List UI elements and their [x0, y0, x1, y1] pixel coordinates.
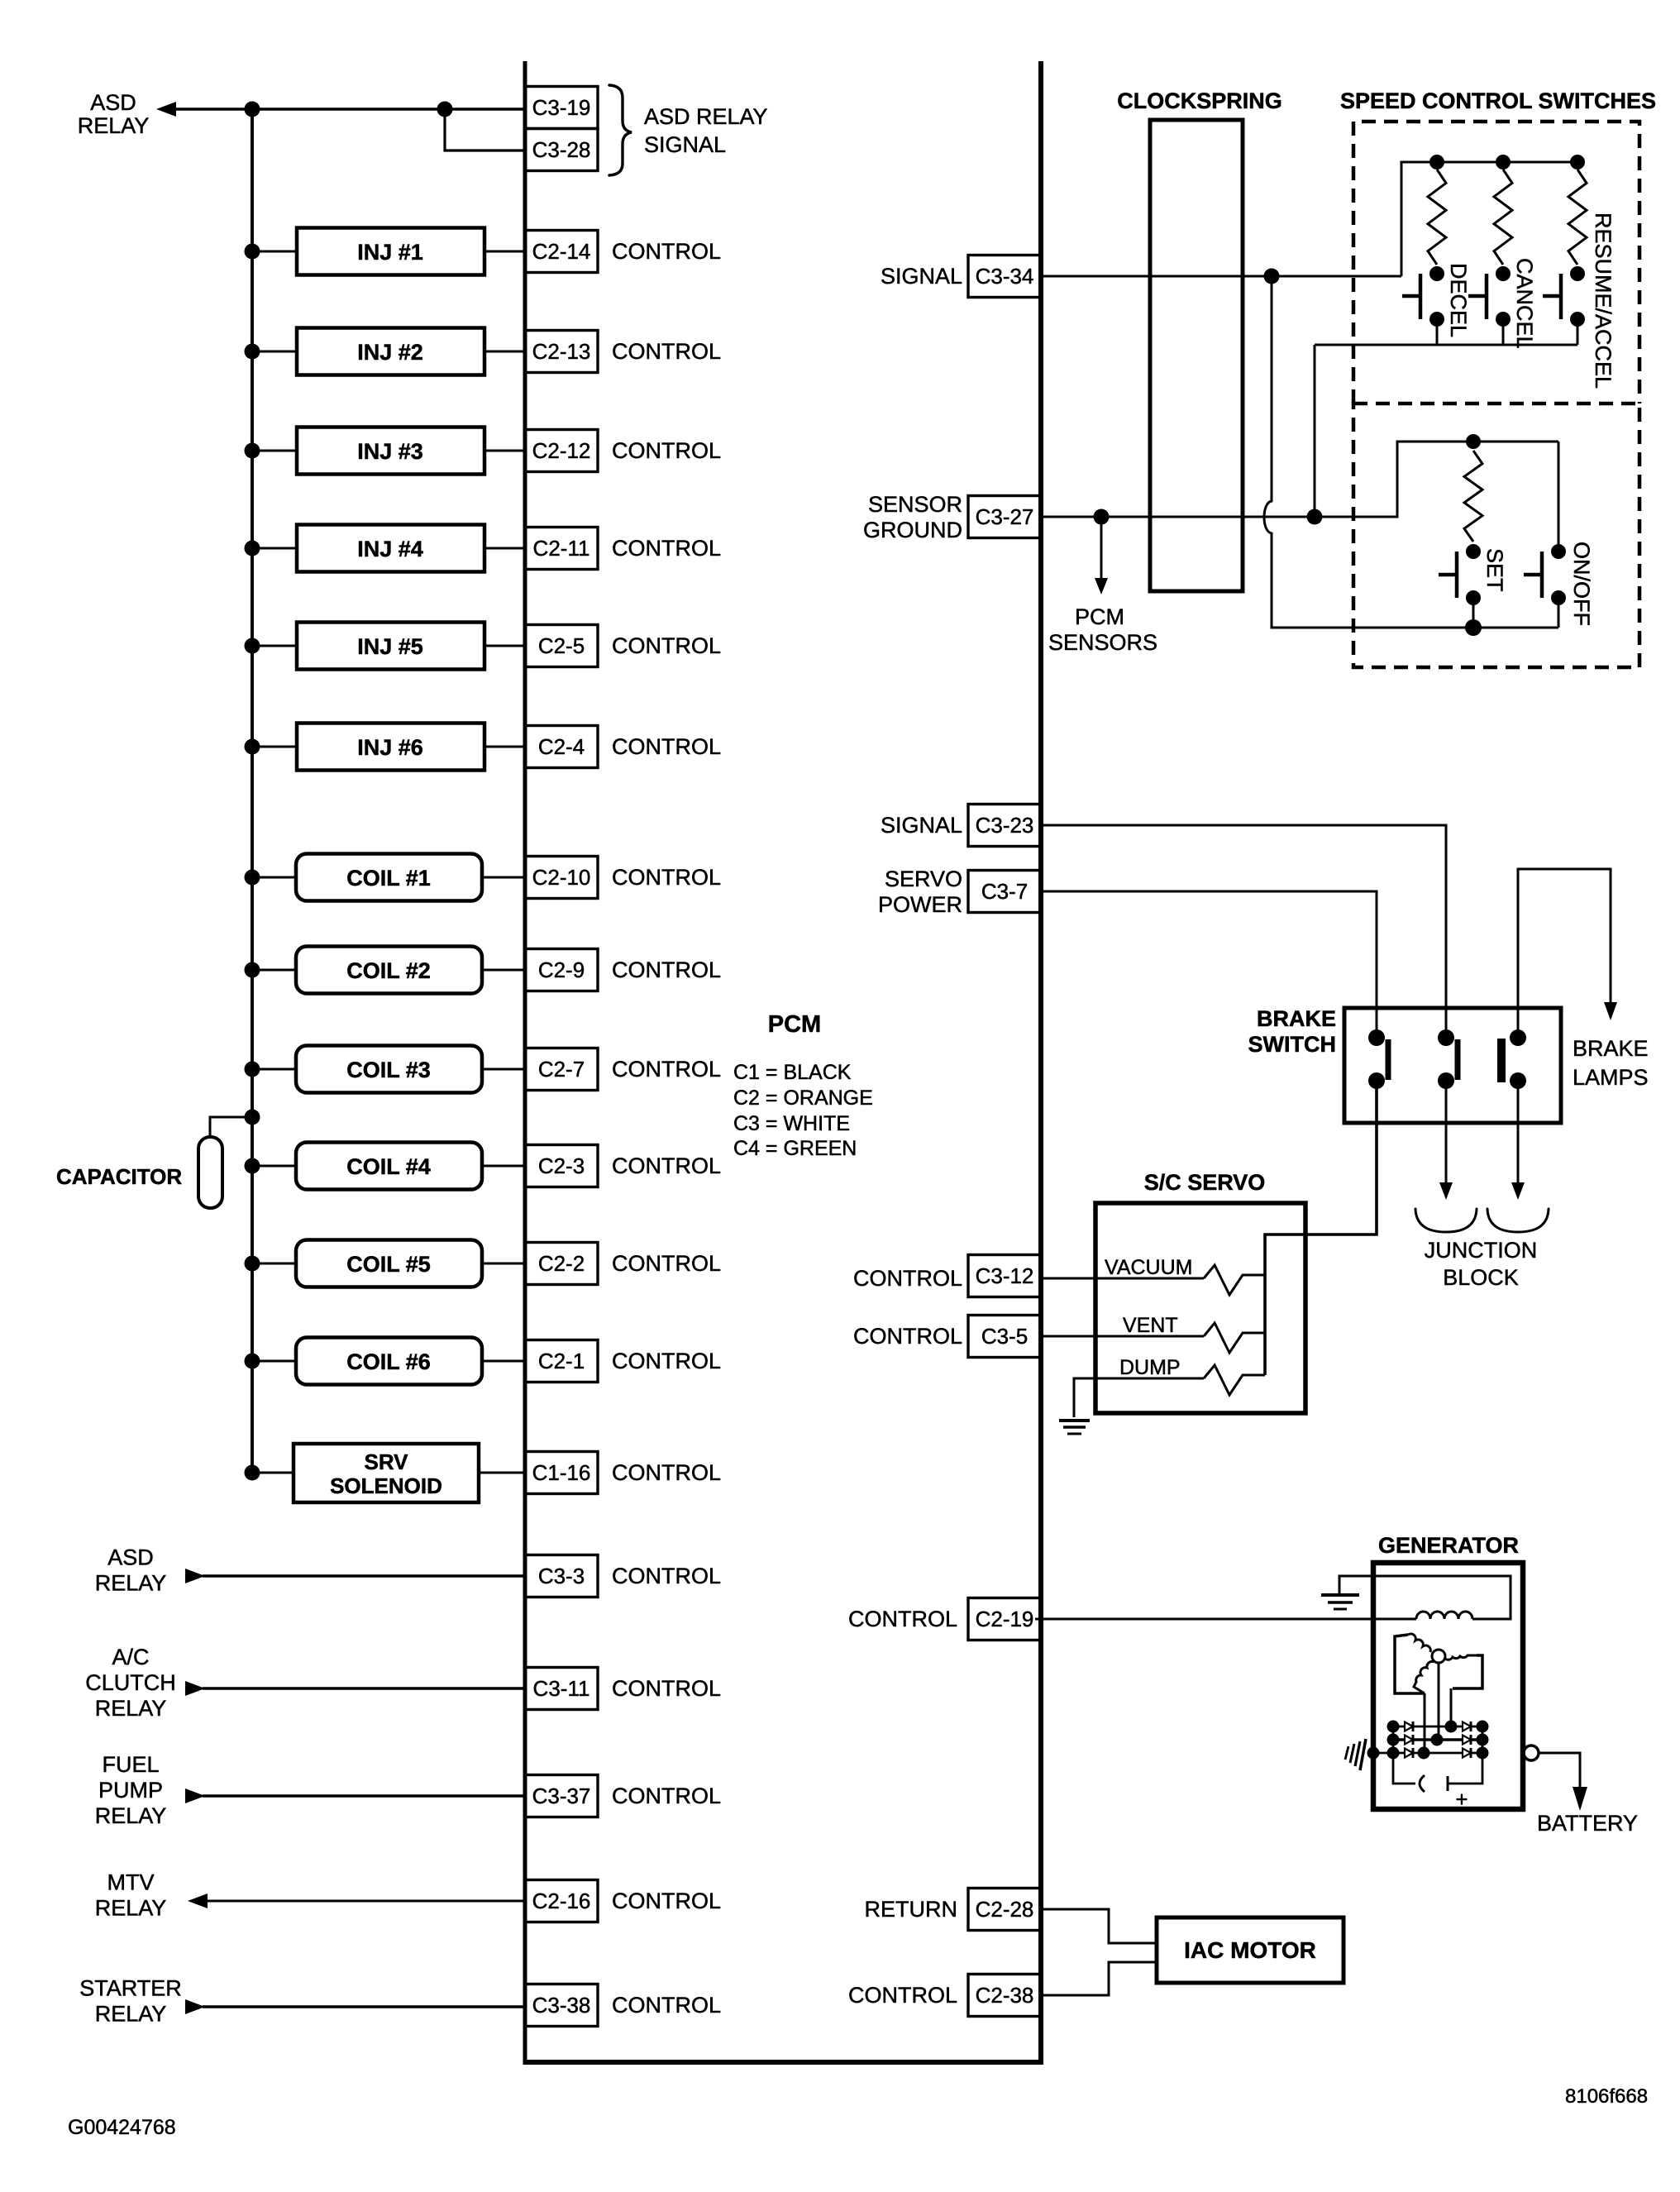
stator lead 2 wire	[1438, 1663, 1440, 1740]
svg-text:CONTROL: CONTROL	[612, 1057, 721, 1082]
upper switch bottom rail wire	[1315, 344, 1577, 346]
svg-text:A/C: A/C	[112, 1645, 149, 1669]
resistor SET	[1464, 451, 1482, 542]
generator output terminal	[1524, 1745, 1539, 1760]
svg-text:DUMP: DUMP	[1119, 1356, 1181, 1379]
wire bus to INJ #4	[252, 547, 297, 550]
node rail3 right	[1477, 1747, 1489, 1760]
svg-text:CAPACITOR: CAPACITOR	[56, 1164, 182, 1189]
wire INJ #1 to C2-14	[484, 251, 525, 253]
wire bus to COIL #1	[252, 876, 296, 879]
dashed box upper switches	[1353, 122, 1639, 404]
node bus INJ #3	[245, 443, 260, 459]
wire SET to rail	[1472, 598, 1475, 628]
injector INJ #6	[297, 724, 484, 771]
arrow to MTV RELAY	[188, 1894, 208, 1908]
switch CANCEL	[1468, 274, 1487, 319]
ignition coil COIL #6	[296, 1338, 482, 1385]
injector INJ #5	[297, 623, 484, 670]
junction block bracket right	[1487, 1209, 1549, 1232]
wire COIL #4 to C2-3	[482, 1165, 525, 1168]
generator stator winding	[1395, 1634, 1482, 1693]
node rail1 mid	[1445, 1721, 1458, 1733]
ignition coil COIL #1	[296, 854, 482, 901]
svg-text:CLUTCH: CLUTCH	[85, 1670, 176, 1695]
svg-text:SIGNAL: SIGNAL	[881, 264, 962, 289]
pin C3-38	[525, 1984, 598, 2027]
node bus INJ #4	[245, 541, 260, 556]
BRAKE SWITCH label	[1248, 1006, 1336, 1057]
svg-text:PCM: PCM	[768, 1011, 821, 1038]
resistor RESUME/ACCEL	[1568, 170, 1587, 265]
svg-text:C3-19: C3-19	[532, 95, 591, 120]
svg-text:SENSOR: SENSOR	[868, 492, 962, 517]
rectifier right column wire	[1482, 1726, 1484, 1753]
svg-text:CONTROL: CONTROL	[612, 1349, 721, 1373]
svg-text:CLOCKSPRING: CLOCKSPRING	[1117, 88, 1282, 113]
node sensor ground switch junction	[1307, 509, 1323, 525]
ground symbol generator	[1321, 1595, 1359, 1609]
wire STARTER RELAY to C3-38	[203, 2005, 525, 2008]
svg-text:ASD RELAY: ASD RELAY	[644, 104, 768, 129]
wire bus to INJ #2	[252, 351, 297, 353]
svg-text:SET: SET	[1482, 548, 1507, 592]
node rail1 left	[1387, 1721, 1400, 1733]
svg-text:BRAKE: BRAKE	[1257, 1006, 1336, 1031]
node ON/OFF lower contact	[1551, 590, 1566, 605]
rectifier rail 1 wire	[1393, 1726, 1482, 1728]
wire bus to COIL #2	[252, 969, 296, 972]
pin C3-37	[525, 1775, 598, 1817]
svg-text:INJ #2: INJ #2	[357, 340, 423, 365]
svg-text:SIGNAL: SIGNAL	[644, 132, 726, 157]
svg-text:C2 = ORANGE: C2 = ORANGE	[733, 1086, 873, 1110]
pin C2-3	[525, 1145, 598, 1187]
svg-text:COIL #2: COIL #2	[346, 958, 431, 983]
svg-text:G00424768: G00424768	[68, 2116, 176, 2139]
field circuit loop wire	[1339, 1576, 1511, 1619]
SRV solenoid	[294, 1444, 479, 1502]
PCM bottom edge wire	[523, 2060, 1044, 2065]
node ON/OFF upper contact	[1551, 544, 1566, 559]
svg-text:CONTROL: CONTROL	[612, 1784, 721, 1808]
PCM SENSORS label	[1048, 604, 1157, 655]
svg-text:SWITCH: SWITCH	[1248, 1032, 1336, 1057]
pin C2-5	[525, 625, 598, 667]
wire bus to COIL #5	[252, 1263, 296, 1265]
svg-text:C3-11: C3-11	[533, 1676, 590, 1701]
node CANCEL upper contact	[1496, 266, 1511, 281]
wire C2-28 to IAC motor	[1038, 1909, 1157, 1943]
wire INJ #5 to C2-5	[484, 645, 525, 647]
svg-text:C2-2: C2-2	[538, 1251, 585, 1276]
brake lamps feed wire	[1518, 869, 1611, 1038]
pin C3-12	[968, 1255, 1041, 1297]
svg-text:BRAKE: BRAKE	[1573, 1036, 1649, 1061]
rectifier rail 3 wire	[1373, 1752, 1482, 1755]
arrow from A/C CLUTCH RELAY	[185, 1681, 205, 1696]
diode rail3 right	[1463, 1749, 1471, 1758]
svg-text:CONTROL: CONTROL	[853, 1266, 962, 1291]
upper switch top rail wire	[1401, 162, 1577, 276]
wire brake switch to s/c servo common	[1265, 1081, 1377, 1375]
pin C2-28	[968, 1889, 1041, 1931]
node rail2 mid	[1431, 1734, 1444, 1746]
wire INJ #6 to C2-4	[484, 746, 525, 748]
pin C2-10	[525, 857, 598, 899]
pin C3-5	[968, 1316, 1041, 1358]
node bus INJ #6	[245, 739, 260, 755]
svg-text:VACUUM: VACUUM	[1105, 1256, 1192, 1279]
svg-text:CONTROL: CONTROL	[612, 1251, 721, 1276]
pin C1-16	[525, 1452, 598, 1494]
svg-text:C3-3: C3-3	[538, 1564, 585, 1588]
svg-text:CONTROL: CONTROL	[848, 1607, 957, 1631]
svg-text:C2-7: C2-7	[538, 1057, 585, 1082]
svg-text:C2-1: C2-1	[538, 1349, 585, 1373]
arrow from ASD RELAY	[185, 1569, 205, 1583]
dump valve resistor	[1204, 1365, 1265, 1395]
diode rail3 left	[1405, 1749, 1413, 1758]
svg-text:8106f668: 8106f668	[1565, 2085, 1648, 2108]
svg-text:C3-27: C3-27	[976, 504, 1034, 529]
svg-text:INJ #6: INJ #6	[357, 735, 423, 760]
svg-text:VENT: VENT	[1123, 1314, 1178, 1337]
svg-text:INJ #4: INJ #4	[357, 537, 423, 561]
node rail3 mid	[1418, 1747, 1430, 1760]
arrow to ASD relay	[156, 102, 176, 117]
node bus INJ #5	[245, 638, 260, 654]
pin C2-13	[525, 331, 598, 373]
pin C3-19	[525, 87, 598, 129]
svg-text:RELAY: RELAY	[78, 113, 150, 138]
wire bus to INJ #6	[252, 746, 297, 748]
node bus COIL #3	[245, 1062, 260, 1077]
svg-text:CONTROL: CONTROL	[612, 536, 721, 561]
clockspring	[1150, 120, 1243, 591]
svg-text:INJ #5: INJ #5	[357, 634, 423, 659]
node DECEL lower contact	[1429, 312, 1444, 327]
pin C3-11	[525, 1668, 598, 1710]
svg-text:C3-28: C3-28	[532, 137, 591, 162]
svg-text:CONTROL: CONTROL	[853, 1324, 962, 1349]
svg-text:RESUME/ACCEL: RESUME/ACCEL	[1591, 213, 1616, 389]
svg-text:INJ #1: INJ #1	[357, 240, 423, 265]
svg-text:COIL #5: COIL #5	[346, 1252, 431, 1277]
switch SET	[1439, 552, 1457, 598]
brake switch contact 3	[1501, 1029, 1526, 1089]
diode rail1 left	[1405, 1722, 1413, 1731]
svg-text:COIL #1: COIL #1	[346, 866, 431, 891]
svg-text:RELAY: RELAY	[95, 1696, 167, 1721]
svg-text:CONTROL: CONTROL	[612, 633, 721, 658]
wire C2-38 to IAC motor	[1038, 1962, 1157, 1995]
diode rail2 right	[1463, 1736, 1471, 1745]
svg-text:CONTROL: CONTROL	[612, 239, 721, 264]
svg-text:CONTROL: CONTROL	[612, 1153, 721, 1178]
s/c servo box	[1095, 1203, 1305, 1413]
PCM left edge wire	[523, 61, 527, 2062]
node C3-28 branch junction	[437, 102, 453, 117]
wire COIL #5 to C2-2	[482, 1263, 525, 1265]
FUEL PUMP RELAY label	[95, 1752, 167, 1828]
rectifier left column wire	[1392, 1726, 1395, 1753]
wire RESUME/ACCEL to bottom rail	[1577, 319, 1579, 345]
injector INJ #3	[297, 427, 484, 475]
svg-text:SPEED CONTROL SWITCHES: SPEED CONTROL SWITCHES	[1340, 88, 1656, 113]
pin C2-14	[525, 231, 598, 273]
pin C2-12	[525, 430, 598, 472]
svg-text:C2-12: C2-12	[532, 438, 591, 463]
svg-text:SENSORS: SENSORS	[1048, 630, 1157, 655]
pin C3-7	[968, 871, 1041, 913]
ground symbol servo	[1059, 1421, 1090, 1434]
PCM sensors arrow	[1100, 524, 1103, 582]
svg-text:C4 = GREEN: C4 = GREEN	[733, 1137, 857, 1160]
svg-text:CONTROL: CONTROL	[612, 1460, 721, 1485]
svg-text:LAMPS: LAMPS	[1573, 1065, 1649, 1090]
svg-text:DECEL: DECEL	[1446, 263, 1471, 337]
svg-text:COIL #6: COIL #6	[346, 1349, 431, 1374]
stator lead 3 wire	[1424, 1693, 1426, 1753]
capacitor lead wire	[210, 1117, 252, 1137]
node bus COIL #5	[245, 1256, 260, 1272]
svg-text:C2-3: C2-3	[538, 1153, 585, 1178]
svg-text:CONTROL: CONTROL	[612, 1564, 721, 1588]
pin C3-28	[525, 129, 598, 171]
pin C3-3	[525, 1555, 598, 1597]
arrow from FUEL PUMP RELAY	[185, 1788, 205, 1803]
node rail SET junction	[1465, 619, 1482, 636]
resistor CANCEL	[1494, 170, 1512, 265]
resistor DECEL	[1428, 170, 1446, 265]
svg-text:POWER: POWER	[878, 892, 962, 917]
vent valve resistor	[1204, 1323, 1265, 1353]
wire bus to COIL #6	[252, 1360, 296, 1363]
wire bus to COIL #4	[252, 1165, 296, 1168]
ignition coil COIL #4	[296, 1143, 482, 1190]
brace ASD relay signal	[609, 85, 632, 175]
left bus wire	[251, 109, 254, 1473]
arrow to battery	[1573, 1787, 1587, 1811]
node bus SRV solenoid	[245, 1465, 260, 1481]
ASD RELAY label	[95, 1545, 167, 1596]
svg-text:INJ #3: INJ #3	[357, 439, 423, 464]
pin C2-1	[525, 1340, 598, 1383]
wire bus to SRV solenoid	[252, 1472, 294, 1474]
wire CANCEL to bottom rail	[1502, 319, 1505, 345]
svg-text:BLOCK: BLOCK	[1443, 1265, 1519, 1290]
wire bus to INJ #3	[252, 450, 297, 452]
A/C CLUTCH RELAY label	[85, 1645, 176, 1721]
svg-text:CANCEL: CANCEL	[1512, 258, 1537, 349]
svg-text:MTV: MTV	[107, 1870, 155, 1895]
wire ASD relay to pin C3-19	[174, 107, 525, 111]
switch RESUME/ACCEL	[1543, 274, 1561, 319]
svg-text:CONTROL: CONTROL	[612, 1993, 721, 2018]
svg-text:C2-11: C2-11	[533, 536, 590, 561]
generator capacitor loop right wire	[1453, 1753, 1482, 1784]
wire DECEL to bottom rail	[1436, 319, 1439, 345]
BRAKE LAMPS label	[1573, 1036, 1649, 1090]
wire SRV solenoid to C1-16	[479, 1472, 525, 1474]
svg-text:C3-23: C3-23	[976, 813, 1034, 838]
node CANCEL lower contact	[1496, 312, 1511, 327]
wire brake switch to junction block left	[1445, 1081, 1448, 1185]
svg-text:FUEL: FUEL	[102, 1752, 159, 1777]
JUNCTION BLOCK label	[1425, 1238, 1538, 1290]
svg-text:SOLENOID: SOLENOID	[330, 1473, 442, 1498]
svg-text:COIL #4: COIL #4	[346, 1154, 431, 1179]
brake switch contact 2	[1438, 1029, 1458, 1089]
svg-text:COIL #3: COIL #3	[346, 1058, 431, 1082]
svg-text:C2-4: C2-4	[538, 734, 585, 759]
svg-text:C3-7: C3-7	[981, 879, 1028, 904]
wire INJ #3 to C2-12	[484, 450, 525, 452]
svg-text:CONTROL: CONTROL	[612, 1889, 721, 1913]
wire C3-7 to brake switch	[1041, 891, 1377, 1038]
ignition coil COIL #3	[296, 1046, 482, 1093]
wire bus to INJ #5	[252, 645, 297, 647]
injector INJ #1	[297, 228, 484, 275]
STARTER RELAY label	[79, 1976, 182, 2027]
svg-text:C2-13: C2-13	[532, 339, 591, 364]
wire C3-12 vacuum control	[1041, 1277, 1204, 1280]
svg-text:ASD: ASD	[107, 1545, 154, 1570]
wire C3-5 vent control	[1041, 1335, 1204, 1338]
generator field coil	[1416, 1612, 1472, 1619]
svg-text:C3 = WHITE: C3 = WHITE	[733, 1112, 850, 1135]
pin C3-23	[968, 805, 1041, 847]
pin C2-7	[525, 1048, 598, 1091]
wire C2-19 to generator field coil	[1035, 1618, 1416, 1621]
svg-text:GENERATOR: GENERATOR	[1378, 1533, 1519, 1558]
node DECEL upper contact	[1429, 266, 1444, 281]
pin C3-27	[968, 496, 1041, 538]
diode rail1 right	[1463, 1722, 1471, 1731]
node SET upper contact	[1466, 544, 1481, 559]
SERVO POWER label	[878, 867, 962, 917]
pin C2-11	[525, 528, 598, 570]
wire FUEL PUMP RELAY to C3-37	[203, 1794, 525, 1797]
wire generator to battery	[1539, 1753, 1580, 1788]
node bus COIL #1	[245, 870, 260, 886]
svg-text:CONTROL: CONTROL	[612, 339, 721, 364]
node top rail CANCEL	[1496, 155, 1511, 170]
svg-text:SIGNAL: SIGNAL	[881, 813, 962, 838]
svg-text:CONTROL: CONTROL	[612, 1676, 721, 1701]
wire A/C CLUTCH RELAY to C3-11	[203, 1687, 525, 1689]
node bus capacitor	[245, 1110, 260, 1125]
injector INJ #4	[297, 525, 484, 572]
svg-text:C2-16: C2-16	[532, 1889, 591, 1913]
SENSOR GROUND label	[863, 492, 962, 542]
svg-text:CONTROL: CONTROL	[612, 734, 721, 759]
wire COIL #1 to C2-10	[482, 876, 525, 879]
svg-text:STARTER: STARTER	[79, 1976, 182, 2001]
node bus COIL #2	[245, 962, 260, 978]
dashed box lower switches	[1353, 404, 1639, 667]
pin C2-19	[968, 1598, 1041, 1640]
svg-text:S/C SERVO: S/C SERVO	[1144, 1170, 1266, 1195]
wire signal drop to lower switch rail	[1264, 276, 1558, 628]
svg-text:CONTROL: CONTROL	[848, 1983, 957, 2008]
svg-text:IAC MOTOR: IAC MOTOR	[1184, 1937, 1316, 1963]
svg-text:C2-10: C2-10	[532, 865, 591, 890]
pin C2-16	[525, 1880, 598, 1922]
node bus COIL #4	[245, 1158, 260, 1174]
injector INJ #2	[297, 328, 484, 375]
junction block bracket left	[1415, 1209, 1477, 1232]
generator capacitor arc	[1420, 1775, 1425, 1792]
PCM right edge wire	[1038, 61, 1043, 2062]
chassis ground hatch	[1345, 1739, 1366, 1770]
wire ON/OFF to rail	[1558, 598, 1560, 628]
wire COIL #2 to C2-9	[482, 969, 525, 972]
node PCM sensors junction	[1094, 509, 1110, 525]
svg-text:RELAY: RELAY	[95, 1571, 167, 1596]
svg-text:C3-12: C3-12	[976, 1263, 1034, 1288]
svg-text:C3-37: C3-37	[532, 1784, 591, 1808]
svg-text:C2-5: C2-5	[538, 633, 585, 658]
svg-text:RELAY: RELAY	[95, 2002, 167, 2027]
generator battery cell	[1448, 1776, 1453, 1791]
node bus top junction	[245, 102, 260, 117]
node SET lower contact	[1466, 590, 1481, 605]
svg-text:C3-5: C3-5	[981, 1324, 1028, 1349]
ignition coil COIL #2	[296, 947, 482, 994]
node top rail RESUME/ACCEL	[1570, 155, 1585, 170]
rectifier rail 2 wire	[1393, 1738, 1482, 1741]
svg-text:GROUND: GROUND	[863, 518, 962, 542]
svg-text:RETURN: RETURN	[865, 1897, 958, 1922]
wire C3-23 to brake switch	[1041, 825, 1446, 1038]
svg-text:JUNCTION: JUNCTION	[1425, 1238, 1538, 1263]
svg-text:SERVO: SERVO	[885, 867, 962, 891]
wire brake switch to junction block right	[1517, 1081, 1520, 1185]
node rail2 right	[1477, 1734, 1489, 1746]
svg-text:ASD: ASD	[90, 90, 136, 115]
svg-text:C2-9: C2-9	[538, 958, 585, 982]
wire branch to pin C3-28	[445, 109, 525, 150]
svg-text:C1 = BLACK: C1 = BLACK	[733, 1061, 852, 1084]
wire C3-34 signal	[1041, 275, 1401, 278]
IAC motor	[1157, 1917, 1344, 1983]
svg-text:C2-38: C2-38	[976, 1983, 1034, 2008]
ignition coil COIL #5	[296, 1240, 482, 1287]
svg-text:CONTROL: CONTROL	[612, 865, 721, 890]
node lower rail junction	[1466, 434, 1481, 449]
wire dump to ground	[1074, 1378, 1204, 1417]
wire COIL #6 to C2-1	[482, 1360, 525, 1363]
vacuum valve resistor	[1204, 1265, 1265, 1295]
node RESUME/ACCEL lower contact	[1570, 312, 1585, 327]
diode rail2 left	[1405, 1736, 1413, 1745]
wire bus to COIL #3	[252, 1068, 296, 1071]
pin C2-38	[968, 1975, 1041, 2017]
wire COIL #3 to C2-7	[482, 1068, 525, 1071]
MTV RELAY label	[95, 1870, 167, 1921]
svg-text:C2-14: C2-14	[532, 239, 591, 264]
pin C2-2	[525, 1243, 598, 1285]
svg-text:PUMP: PUMP	[98, 1778, 163, 1803]
svg-text:PCM: PCM	[1075, 604, 1124, 629]
switch DECEL	[1402, 274, 1420, 319]
pin C2-4	[525, 726, 598, 768]
wire INJ #2 to C2-13	[484, 351, 525, 353]
wire ASD RELAY to C3-3	[203, 1574, 525, 1577]
wire C3-27 sensor ground	[1041, 442, 1558, 517]
